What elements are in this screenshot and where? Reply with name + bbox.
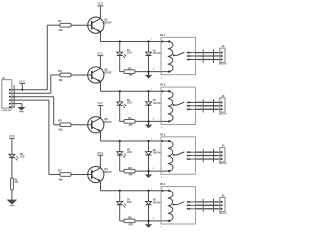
wire riser stage 3 [53,97,55,125]
wire J1 pin [12,99,49,101]
svg-text:R5: R5 [58,119,62,123]
diode D6 [148,141,150,152]
wire contact 2 stage 2 [188,105,220,107]
svg-text:LED: LED [127,102,132,104]
svg-text:BC547: BC547 [104,22,112,25]
svg-text:CONN-SIL6: CONN-SIL6 [2,110,12,112]
node rail-1-c [161,41,163,43]
wire collector [99,105,101,118]
wire J1 pin [12,89,47,91]
relay coil RL1 [168,42,173,72]
wire riser stage 2 [50,75,52,93]
node rail-3-a [119,140,121,142]
wire vertical b stage 1 [213,50,215,63]
ground stage 2 [148,121,150,125]
pin 2 J1 [9,92,11,94]
wire bottom rail [120,71,124,73]
svg-text:RL1: RL1 [160,33,166,37]
svg-text:LED: LED [127,202,132,204]
pin 6 J1 [9,106,11,108]
connector J3 [220,98,225,112]
node rail-1-b [147,40,149,42]
wire vertical b stage 3 [213,149,215,162]
wire contact 1 stage 3 [188,151,220,153]
relay coil RL4 [168,191,173,221]
pin 4 J1 [9,99,11,101]
svg-text:10k: 10k [58,78,63,82]
transistor Q1 [88,17,104,33]
diode D2 [148,42,150,53]
svg-text:R1: R1 [58,19,62,23]
svg-text:470: 470 [128,74,133,77]
LED D9 [9,154,15,157]
relay RL1 body [161,37,195,74]
wire top rail [101,90,170,92]
node rail-4-a [119,190,121,192]
resistor R9 [11,178,14,190]
ground J1 [21,104,23,108]
wire vcc-d9 [11,138,13,154]
wire contact 2 stage 4 [188,204,220,206]
wire J1 pin [12,103,22,105]
connector J1 [2,80,12,108]
svg-text:TBLOCK: TBLOCK [219,163,228,165]
wire collector [99,6,101,19]
wire contact 3 stage 4 [188,208,220,210]
wire bottom rail [120,220,124,222]
LED D7 [119,191,121,202]
svg-text:RL4: RL4 [160,182,166,186]
wire bottom rail [120,170,124,172]
wire r9-gnd [11,190,13,200]
svg-text:BC547: BC547 [104,121,112,124]
wire top rail [101,190,170,192]
wire vertical a stage 2 [202,99,204,112]
resistor R2 [124,70,135,74]
svg-text:VCC: VCC [9,134,15,138]
wire contact 3 stage 2 [188,108,220,110]
svg-text:TBLOCK: TBLOCK [219,213,228,215]
svg-text:J1: J1 [2,76,5,80]
svg-text:TBLOCK: TBLOCK [219,64,228,66]
resistor R5 [56,124,60,126]
ground stage 1 [148,72,150,76]
ground stage 4 [148,221,150,225]
wire contact 1 stage 4 [188,201,220,203]
wire J1 pin [12,96,54,98]
svg-text:470: 470 [128,224,133,227]
svg-text:TBLOCK: TBLOCK [219,113,228,115]
relay RL1 contact [173,54,175,56]
wire contact 1 stage 2 [188,101,220,103]
wire top rail [101,41,170,43]
node brail-4-a [147,220,149,222]
wire contact 3 stage 1 [188,59,220,61]
relay coil RL2 [168,91,173,121]
diode D8 [148,191,150,202]
wire riser stage 1 [46,25,48,90]
wire contact 3 stage 3 [188,158,220,160]
svg-text:RL3: RL3 [160,132,166,136]
svg-text:BC547: BC547 [104,71,112,74]
transistor Q3 [88,117,104,133]
svg-text:R3: R3 [58,69,62,73]
pin 1 J1 [9,89,11,91]
node rail-4-b [147,190,149,192]
transistor Q4 [88,166,104,182]
pin number column J1 [13,85,15,107]
resistor R8 [124,219,135,223]
svg-text:470: 470 [128,174,133,177]
svg-text:10k: 10k [58,28,63,32]
transistor Q2 [88,67,104,83]
ground D9 chain [7,200,18,205]
wire J1 pin 6 stub [12,106,15,108]
relay RL3 body [161,137,195,174]
wire collector [99,155,101,168]
svg-text:10k: 10k [58,177,63,181]
svg-text:VCC: VCC [97,151,103,155]
diode D4 [148,91,150,102]
node rail-2-a [119,90,121,92]
relay RL3 contact [173,154,175,156]
ground stage 3 [148,171,150,175]
svg-text:VCC: VCC [97,101,103,105]
node rail-3-b [147,140,149,142]
svg-text:VCC: VCC [97,2,103,6]
svg-text:BC547: BC547 [104,171,112,174]
svg-text:R7: R7 [58,168,62,172]
svg-text:VCC: VCC [19,79,25,83]
wire vertical b stage 2 [213,99,215,112]
relay RL4 contact [173,204,175,206]
wire d9-r9 [11,158,13,178]
connector J2 [220,48,225,62]
node brail-3-a [147,170,149,172]
svg-text:470: 470 [128,124,133,127]
svg-text:10k: 10k [58,128,63,132]
resistor R1 [56,24,60,26]
node brail-1-a [147,70,149,72]
wire emitter [100,32,102,42]
connector J5 [220,197,225,211]
resistor R3 [56,74,60,76]
wire J1 pin [12,92,51,94]
node vcc-j1 [21,89,23,91]
LED D5 [119,141,121,152]
wire vertical b stage 4 [213,199,215,212]
node rail-2-c [161,90,163,92]
relay RL4 body [161,187,195,224]
relay coil RL3 [168,141,173,171]
relay RL2 contact [173,104,175,106]
resistor R6 [124,169,135,173]
svg-text:LED: LED [20,157,25,159]
pin 3 J1 [9,96,11,98]
wire contact 2 stage 1 [188,55,220,57]
resistor R7 [56,174,60,176]
pin 5 J1 [9,103,11,105]
wire bottom rail [120,120,124,122]
node rail-1-a [119,40,121,42]
wire riser stage 4 [48,100,50,174]
svg-text:LED: LED [127,152,132,154]
node rail-2-b [147,90,149,92]
node rail-3-c [161,140,163,142]
node brail-2-a [147,120,149,122]
wire contact 1 stage 1 [188,52,220,54]
wire top rail [101,140,170,142]
wire contact 2 stage 3 [188,155,220,157]
wire emitter [100,82,102,92]
wire emitter [100,181,102,191]
wire collector [99,56,101,69]
relay RL2 body [161,87,195,124]
svg-text:LED: LED [127,53,132,55]
resistor R4 [124,120,135,124]
LED D1 [119,42,121,53]
wire vertical a stage 3 [202,149,204,162]
wire vertical a stage 1 [202,50,204,63]
wire vertical a stage 4 [202,199,204,212]
svg-text:RL2: RL2 [160,83,166,87]
svg-text:VCC: VCC [97,51,103,55]
wire emitter [100,131,102,141]
node rail-4-c [161,190,163,192]
connector J4 [220,148,225,162]
LED D3 [119,91,121,102]
